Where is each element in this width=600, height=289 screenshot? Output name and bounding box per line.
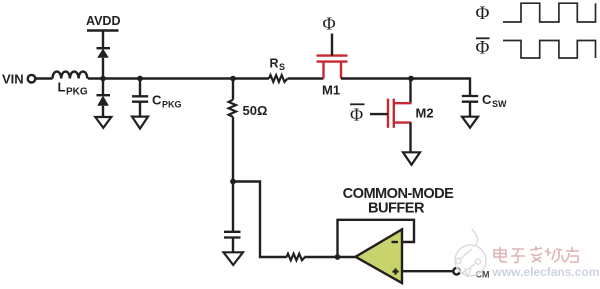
node buffer output junction (335, 254, 341, 260)
transistor M1 (red PMOS switch) (317, 56, 348, 79)
terminal VIN (28, 75, 36, 83)
wire diode D2 to ground (102, 106, 104, 117)
op-amp U1 common-mode buffer (356, 229, 403, 283)
svg-text:C: C (152, 92, 162, 107)
wire CPKG node down (139, 79, 141, 97)
waveform phi (503, 3, 596, 22)
wire node to diode D2 (102, 79, 104, 96)
power rail AVDD bar (87, 29, 119, 31)
svg-text:M2: M2 (416, 106, 434, 121)
node bottom junction (230, 179, 236, 185)
resistor 50ohm (vertical) (232, 79, 234, 100)
wire M2 gate lead (370, 113, 388, 115)
wire AVDD bar to diode D1 (102, 31, 104, 49)
wire M1 to node (341, 77, 470, 79)
wire feedback loop (338, 220, 415, 257)
svg-text:www.elecfans.com: www.elecfans.com (492, 265, 600, 279)
wire VIN to inductor (36, 77, 53, 79)
svg-text:Φ: Φ (476, 38, 490, 59)
svg-text:COMMON-MODE: COMMON-MODE (343, 186, 455, 202)
svg-text:M1: M1 (322, 83, 340, 98)
watermark logo circle (455, 229, 486, 276)
wire M2 drain (409, 79, 411, 104)
diode D1 (clamp to AVDD) (97, 47, 111, 49)
svg-text:PKG: PKG (66, 86, 88, 97)
ground (CSW) (462, 117, 478, 128)
wire RS to M1 (288, 77, 324, 79)
char you (565, 247, 579, 262)
wire diode D1 to node (102, 58, 104, 79)
capacitor (bottom) (224, 231, 241, 233)
wire node right and down (233, 182, 287, 258)
node junction at AVDD column (100, 76, 106, 82)
op-amp minus sign (392, 241, 399, 243)
node junction M2 drain (408, 76, 414, 82)
ground (D2) (95, 117, 111, 128)
wire node down to capacitor (232, 182, 234, 232)
char shao (545, 248, 565, 262)
svg-text:C: C (482, 92, 492, 107)
resistor (buffer input) (287, 254, 305, 261)
wire resistor to node (305, 256, 357, 258)
wire 50ohm to bottom node (232, 117, 234, 182)
svg-text:Φ: Φ (323, 14, 336, 34)
ground (CPKG) (132, 117, 148, 129)
wire CSW to ground (469, 102, 471, 117)
node junction 50ohm (230, 76, 236, 82)
wire M2 source (409, 123, 411, 153)
capacitor CPKG (132, 95, 148, 97)
transistor M2 (red PMOS to ground) (388, 99, 412, 128)
svg-text:L: L (58, 80, 66, 95)
ground (bottom cap) (224, 252, 244, 265)
node junction CPKG (137, 76, 143, 82)
svg-text:PKG: PKG (162, 99, 182, 109)
waveform phi-bar (503, 41, 596, 59)
svg-text:Φ: Φ (476, 3, 490, 24)
char zi (511, 249, 525, 263)
wire capacitor to ground (232, 238, 234, 253)
svg-text:S: S (279, 62, 285, 72)
char fa (530, 246, 542, 262)
svg-text:SW: SW (492, 99, 507, 109)
resistor RS (269, 75, 287, 82)
svg-text:VIN: VIN (2, 72, 24, 87)
wire inductor to AVDD node (88, 77, 140, 79)
wire CPKG to ground (139, 102, 141, 117)
svg-text:R: R (270, 57, 279, 71)
svg-text:50Ω: 50Ω (243, 103, 268, 118)
terminal VCM (453, 268, 460, 275)
inductor LPKG (53, 72, 88, 79)
diode D2 (clamp to ground) (97, 94, 111, 96)
wire CPKG node to RS (140, 77, 269, 79)
capacitor CSW (462, 95, 478, 97)
op-amp plus sign (393, 270, 399, 272)
watermark text dianzifashaoyou (494, 246, 579, 263)
wire M1 gate lead (331, 34, 333, 56)
svg-text:Φ: Φ (350, 105, 363, 125)
ground (M2) (403, 152, 420, 165)
wire plus input to VCM (402, 270, 453, 272)
svg-text:BUFFER: BUFFER (368, 201, 425, 217)
wire corner to CSW (469, 77, 471, 96)
char dian (494, 247, 507, 262)
svg-text:AVDD: AVDD (86, 14, 121, 28)
